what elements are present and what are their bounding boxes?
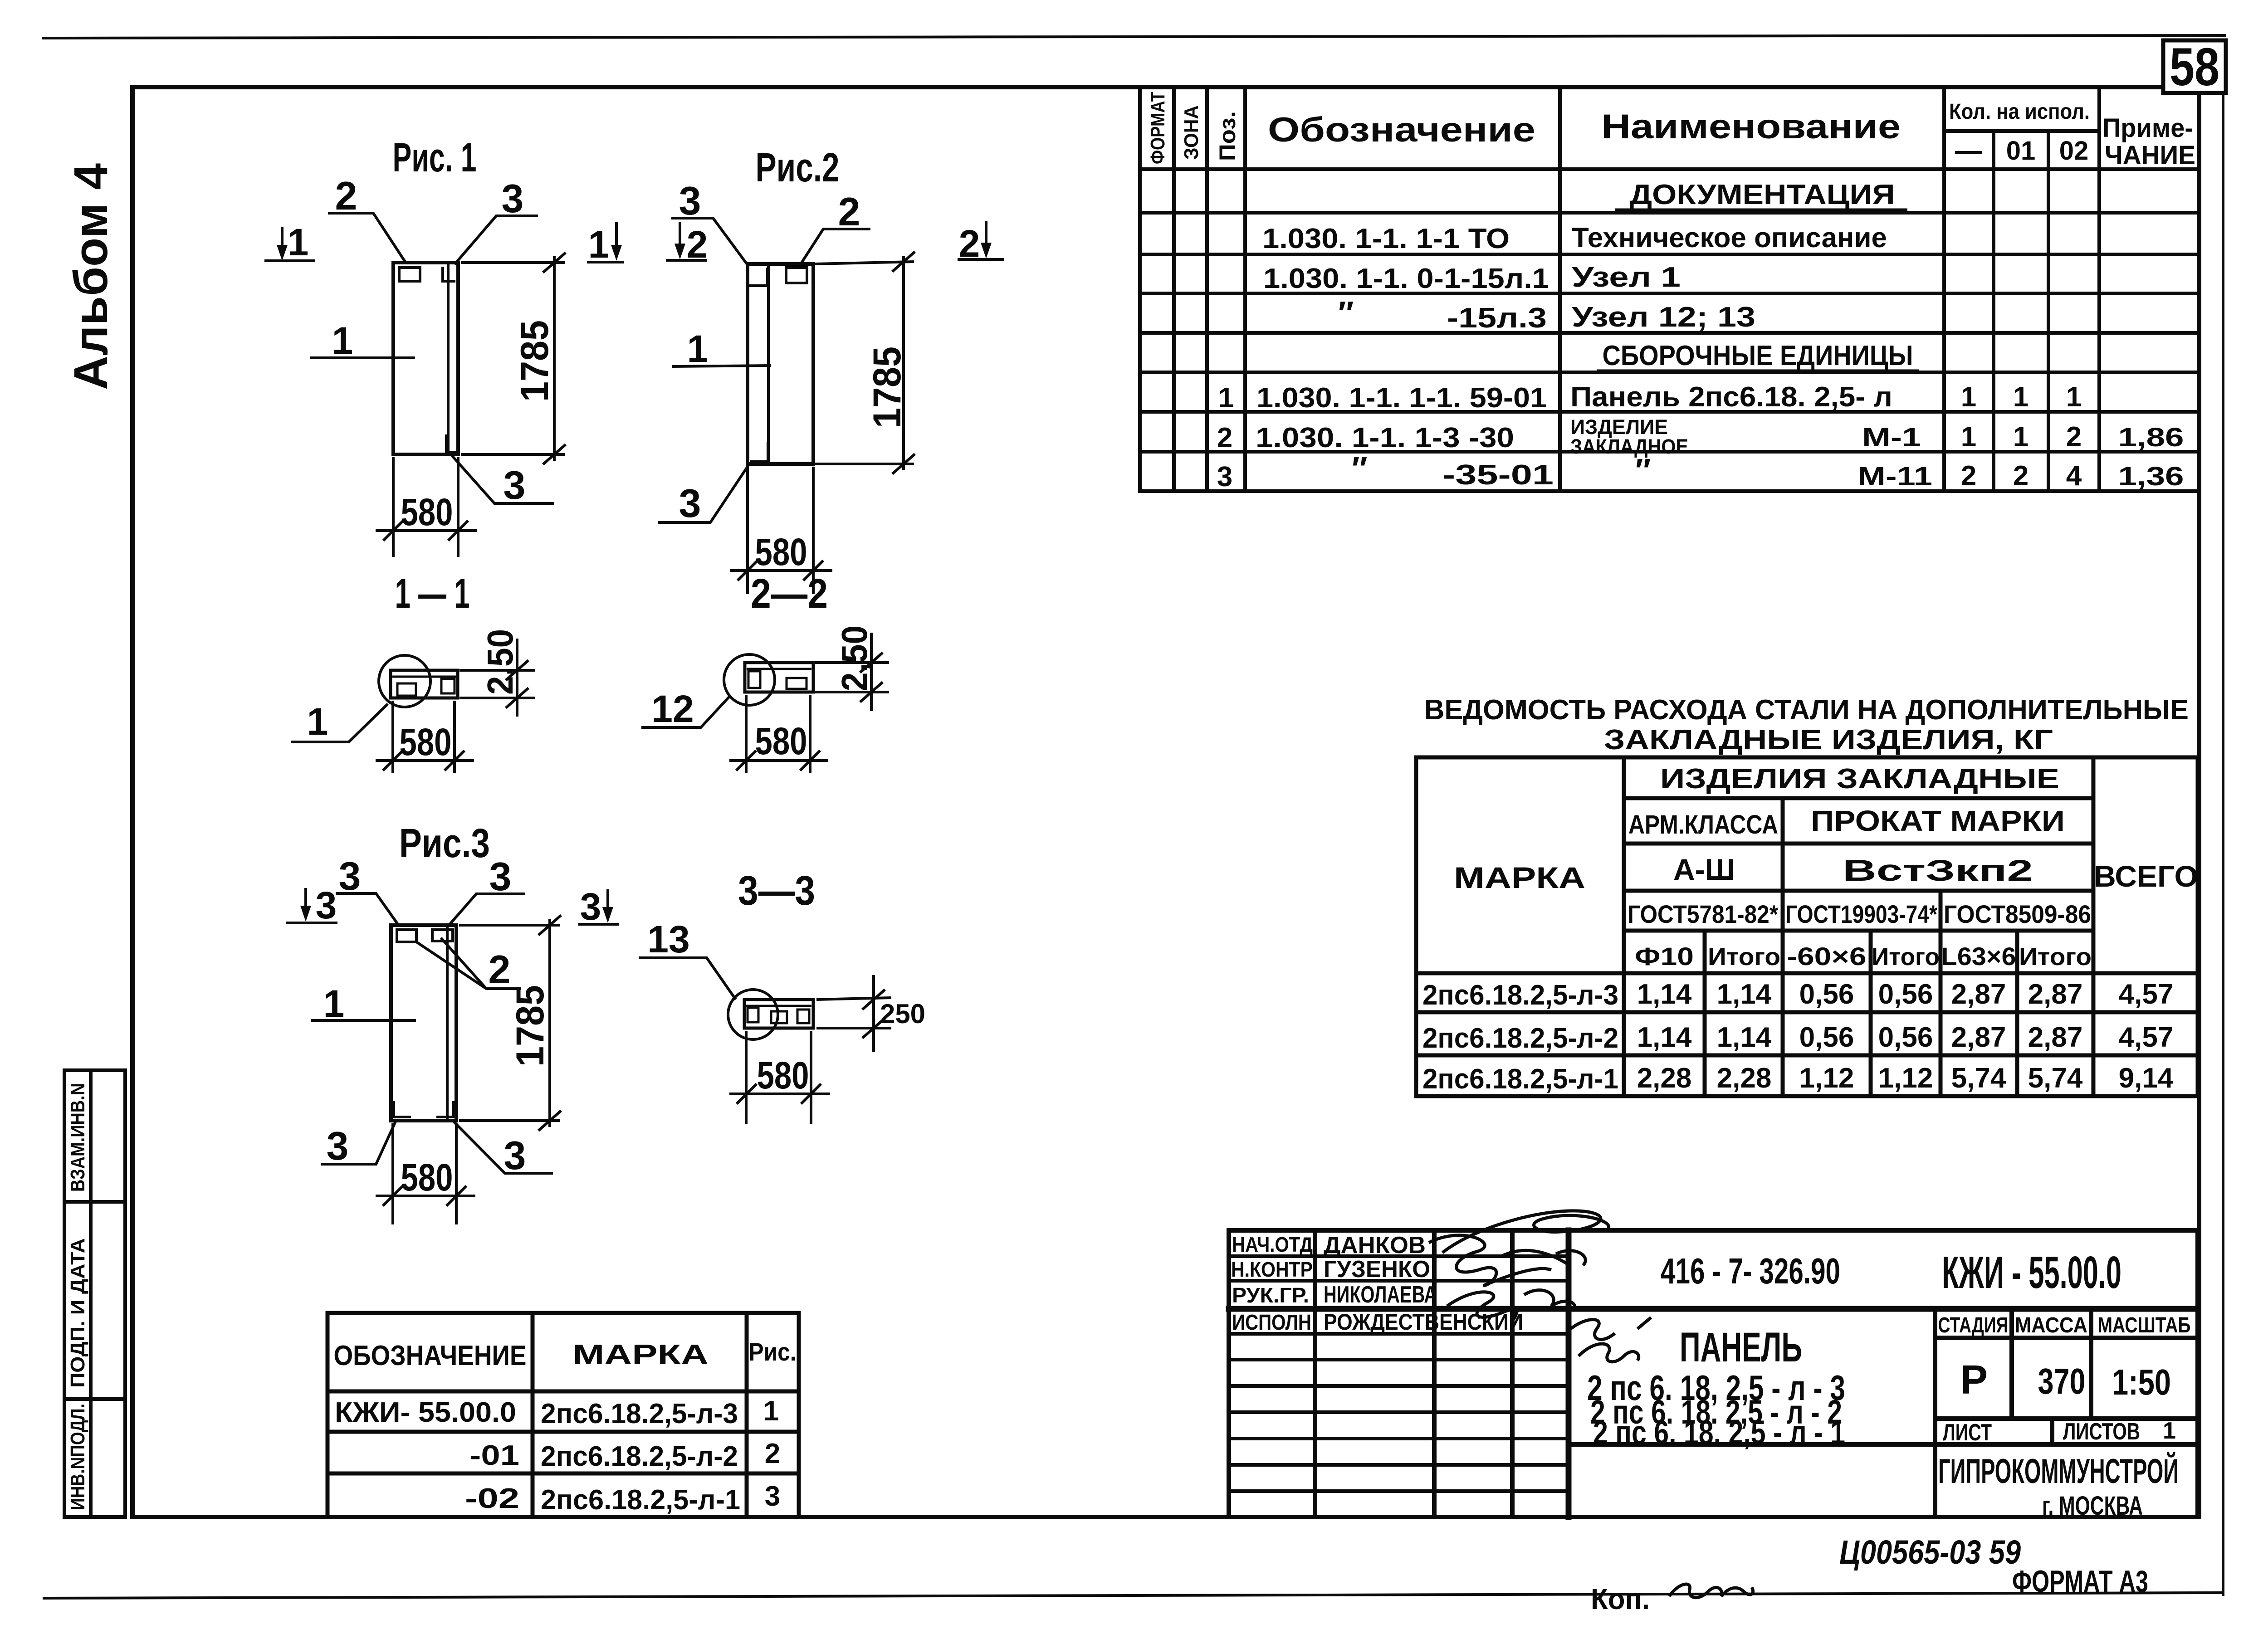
fig3 leader 3 top-left — [336, 893, 399, 926]
svg-text:г. МОСКВА: г. МОСКВА — [2042, 1491, 2143, 1521]
svg-text:1.030. 1-1. 1-1 ТО: 1.030. 1-1. 1-1 ТО — [1262, 223, 1510, 254]
svg-text:НИКОЛАЕВА: НИКОЛАЕВА — [1324, 1282, 1437, 1308]
svg-text:2,28: 2,28 — [1637, 1063, 1692, 1094]
svg-text:МАРКА: МАРКА — [572, 1339, 709, 1371]
fig2 leader 2 top — [800, 229, 870, 265]
svg-text:-01: -01 — [469, 1440, 519, 1471]
sec11 bar — [391, 670, 458, 698]
svg-text:1,14: 1,14 — [1637, 979, 1692, 1010]
svg-text:ДАНКОВ: ДАНКОВ — [1324, 1232, 1426, 1258]
title block grid — [1229, 1230, 2198, 1517]
svg-text:Ф10: Ф10 — [1635, 942, 1694, 971]
sec11 dim 580 — [376, 701, 474, 773]
svg-text:1: 1 — [687, 327, 709, 370]
svg-text:1,14: 1,14 — [1717, 979, 1772, 1010]
svg-text:2пс6.18.2,5-л-2: 2пс6.18.2,5-л-2 — [1422, 1023, 1618, 1054]
svg-text:МАССА: МАССА — [2015, 1313, 2087, 1337]
svg-text:3: 3 — [489, 854, 512, 899]
svg-text:ВЕДОМОСТЬ РАСХОДА СТАЛИ НА ДОП: ВЕДОМОСТЬ РАСХОДА СТАЛИ НА ДОПОЛНИТЕЛЬНЫ… — [1424, 694, 2189, 726]
svg-text:4,57: 4,57 — [2119, 1022, 2174, 1053]
svg-text:ЗАКЛАДНЫЕ ИЗДЕЛИЯ, КГ: ЗАКЛАДНЫЕ ИЗДЕЛИЯ, КГ — [1604, 724, 2053, 756]
fig3 embed mark top-left — [397, 930, 416, 942]
svg-text:2,87: 2,87 — [2028, 979, 2083, 1010]
svg-text:Рис.3: Рис.3 — [399, 821, 490, 866]
svg-text:1785: 1785 — [513, 320, 557, 402]
sec22 bar — [745, 663, 813, 692]
svg-text:1 — 1: 1 — 1 — [395, 571, 470, 617]
fig1 inner wall line — [447, 264, 450, 453]
fig1 leader 2 — [328, 213, 406, 263]
svg-text:2пс6.18.2,5-л-3: 2пс6.18.2,5-л-3 — [1422, 980, 1618, 1011]
sec22 dim 580 — [729, 695, 828, 773]
svg-text:L63×6: L63×6 — [1941, 942, 2016, 971]
sec33 dim 580 — [729, 1031, 830, 1124]
svg-text:ПОДП. И ДАТА: ПОДП. И ДАТА — [67, 1238, 89, 1388]
fig2 leader 3 top — [671, 218, 748, 265]
svg-text:580: 580 — [401, 1156, 453, 1199]
svg-text:1.030. 1-1. 1-1. 59-01: 1.030. 1-1. 1-1. 59-01 — [1256, 382, 1547, 414]
svg-text:1: 1 — [2013, 421, 2028, 453]
fig3 leader 3 bottom-left — [321, 1122, 396, 1164]
fig3 section mark 3 left — [286, 888, 337, 923]
svg-text:1: 1 — [763, 1395, 779, 1427]
svg-text:Приме-: Приме- — [2102, 113, 2193, 143]
svg-text:ВЗАМ.ИНВ.N: ВЗАМ.ИНВ.N — [67, 1083, 89, 1192]
svg-text:4,57: 4,57 — [2119, 979, 2174, 1010]
svg-text:1: 1 — [307, 700, 328, 743]
svg-text:РУК.ГР.: РУК.ГР. — [1232, 1283, 1309, 1307]
sheet number box — [2163, 40, 2226, 93]
svg-text:Итого: Итого — [2019, 943, 2092, 971]
svg-text:ФОРМАТ А3: ФОРМАТ А3 — [2012, 1564, 2148, 1599]
svg-text:2: 2 — [1217, 422, 1232, 454]
svg-text:ИЗДЕЛИЯ ЗАКЛАДНЫЕ: ИЗДЕЛИЯ ЗАКЛАДНЫЕ — [1660, 763, 2059, 795]
svg-text:1: 1 — [588, 223, 610, 266]
svg-text:″: ″ — [1635, 453, 1651, 489]
steel consumption table grid — [1416, 757, 2198, 1096]
svg-text:ВСЕГО: ВСЕГО — [2094, 859, 2198, 893]
svg-text:Обозначение: Обозначение — [1268, 111, 1535, 149]
sec33 leader 13 — [639, 958, 736, 1000]
svg-text:1: 1 — [323, 982, 345, 1025]
svg-text:1: 1 — [1961, 381, 1976, 413]
svg-text:1: 1 — [332, 319, 353, 362]
svg-text:1: 1 — [1218, 382, 1234, 414]
fig2 panel outline — [748, 264, 813, 464]
fig3 dim 580 — [376, 1123, 475, 1224]
fig2 dim 580 — [730, 467, 832, 594]
svg-text:1:50: 1:50 — [2112, 1362, 2171, 1402]
svg-text:3: 3 — [503, 463, 526, 507]
sec11 dim 2,50 — [459, 639, 535, 717]
fig3 embed mark top-right — [432, 930, 453, 941]
svg-text:Узел 1: Узел 1 — [1572, 262, 1681, 293]
svg-text:5,74: 5,74 — [1951, 1063, 2006, 1094]
svg-text:2: 2 — [1961, 460, 1976, 492]
fig3 section mark 3 right — [578, 889, 619, 924]
svg-text:ГУЗЕНКО: ГУЗЕНКО — [1324, 1256, 1430, 1283]
svg-text:58: 58 — [2170, 37, 2219, 97]
svg-text:1,12: 1,12 — [1799, 1063, 1854, 1094]
fig3 leader 3 bottom-right — [454, 1122, 553, 1173]
svg-text:Альбом 4: Альбом 4 — [64, 163, 117, 390]
svg-text:Рис.2: Рис.2 — [756, 145, 840, 190]
fig1 panel outline — [393, 263, 458, 454]
specification table (top right) — [1140, 87, 2198, 491]
sec22 detail circle — [724, 654, 775, 705]
svg-text:АРМ.КЛАССА: АРМ.КЛАССА — [1628, 810, 1778, 839]
svg-text:КЖИ- 55.00.0: КЖИ- 55.00.0 — [335, 1397, 516, 1428]
svg-text:3: 3 — [327, 1123, 349, 1168]
svg-text:М-11: М-11 — [1857, 462, 1932, 491]
svg-text:2,50: 2,50 — [834, 625, 875, 691]
svg-text:370: 370 — [2038, 1361, 2086, 1401]
svg-text:ОБОЗНАЧЕНИЕ: ОБОЗНАЧЕНИЕ — [334, 1340, 527, 1371]
fig1 embed mark bottom-right — [446, 434, 456, 453]
fig3 leader 1 — [311, 1019, 416, 1022]
svg-text:2,87: 2,87 — [2028, 1022, 2083, 1053]
svg-text:1,12: 1,12 — [1878, 1063, 1933, 1094]
svg-text:9,14: 9,14 — [2119, 1063, 2174, 1094]
svg-text:4: 4 — [2066, 460, 2082, 492]
svg-text:Рис.: Рис. — [749, 1337, 797, 1366]
svg-text:ИНВ.NПОДЛ.: ИНВ.NПОДЛ. — [67, 1404, 89, 1510]
svg-text:2пс6.18.2,5-л-1: 2пс6.18.2,5-л-1 — [541, 1484, 740, 1516]
svg-text:ГОСТ8509-86: ГОСТ8509-86 — [1944, 900, 2091, 928]
svg-text:2: 2 — [959, 222, 980, 265]
fig1 leader 3 top — [455, 216, 538, 264]
fig3 leader 2 with two lines — [415, 938, 521, 989]
fig2 embed mark top-right — [786, 268, 807, 283]
svg-text:Рис. 1: Рис. 1 — [393, 135, 477, 180]
svg-text:580: 580 — [755, 720, 807, 762]
svg-text:Техническое описание: Техническое описание — [1572, 222, 1887, 254]
page top edge — [43, 35, 2225, 38]
svg-text:ЧАНИЕ: ЧАНИЕ — [2105, 141, 2195, 170]
fig2 section mark 1 — [587, 222, 624, 262]
svg-text:Итого: Итого — [1708, 943, 1780, 971]
svg-text:2: 2 — [687, 223, 708, 266]
svg-text:ПРОКАТ МАРКИ: ПРОКАТ МАРКИ — [1811, 805, 2065, 837]
svg-text:2,50: 2,50 — [480, 629, 520, 695]
sec33 dim 250 — [816, 975, 891, 1052]
svg-text:ДОКУМЕНТАЦИЯ: ДОКУМЕНТАЦИЯ — [1630, 179, 1895, 210]
Коп. signature — [1669, 1584, 1753, 1598]
svg-text:5,74: 5,74 — [2028, 1063, 2083, 1094]
svg-text:-35-01: -35-01 — [1442, 459, 1554, 491]
svg-text:1: 1 — [288, 221, 309, 263]
fig3 dim 1785 — [459, 915, 561, 1131]
fig2 dim 1785 — [815, 252, 915, 474]
svg-text:416 - 7- 326.90: 416 - 7- 326.90 — [1661, 1251, 1840, 1291]
svg-text:МАСШТАБ: МАСШТАБ — [2098, 1313, 2191, 1337]
svg-text:Кол. на испол.: Кол. на испол. — [1949, 100, 2090, 124]
svg-text:″: ″ — [1352, 451, 1368, 487]
svg-text:3: 3 — [502, 176, 524, 221]
svg-text:580: 580 — [400, 721, 452, 763]
svg-text:1785: 1785 — [865, 346, 909, 428]
svg-text:12: 12 — [651, 688, 694, 730]
fig2 section mark 2 right — [958, 221, 1004, 259]
sec33 bar — [744, 1000, 813, 1028]
fig3 embed mark bottom-right — [436, 1101, 454, 1117]
svg-text:2: 2 — [335, 173, 357, 218]
svg-text:1: 1 — [2163, 1418, 2176, 1444]
svg-text:2: 2 — [2013, 460, 2028, 492]
svg-text:3: 3 — [339, 854, 361, 898]
svg-text:СТАДИЯ: СТАДИЯ — [1938, 1313, 2009, 1337]
sec33 detail circle — [728, 990, 778, 1039]
svg-text:580: 580 — [757, 1054, 809, 1097]
svg-text:Ц00565-03 59: Ц00565-03 59 — [1839, 1533, 2021, 1571]
svg-text:1: 1 — [2066, 381, 2082, 413]
svg-text:2,28: 2,28 — [1717, 1063, 1772, 1094]
svg-text:ЗАКЛАДНОЕ: ЗАКЛАДНОЕ — [1570, 435, 1688, 458]
svg-text:3: 3 — [765, 1481, 780, 1512]
svg-text:М-1: М-1 — [1862, 423, 1921, 452]
svg-text:НАЧ.ОТД: НАЧ.ОТД — [1232, 1233, 1313, 1256]
fig3 leader 3 top-right — [448, 894, 525, 926]
svg-text:3: 3 — [1217, 461, 1232, 493]
svg-text:1,14: 1,14 — [1717, 1022, 1772, 1053]
svg-text:1: 1 — [2013, 381, 2028, 413]
svg-text:2пс6.18.2,5-л-2: 2пс6.18.2,5-л-2 — [541, 1441, 738, 1472]
fig3 embed mark bottom-left — [394, 1101, 411, 1117]
svg-text:2,87: 2,87 — [1951, 1022, 2006, 1053]
svg-text:Р: Р — [1960, 1357, 1988, 1403]
svg-text:3: 3 — [504, 1133, 526, 1178]
svg-text:ПАНЕЛЬ: ПАНЕЛЬ — [1680, 1324, 1802, 1371]
svg-text:Коп.: Коп. — [1591, 1583, 1650, 1615]
fig3 panel outline — [391, 925, 456, 1121]
svg-text:ЗОНА: ЗОНА — [1180, 105, 1202, 160]
svg-text:580: 580 — [755, 531, 807, 573]
svg-text:Поз.: Поз. — [1215, 111, 1240, 161]
svg-text:Итого: Итого — [1872, 943, 1940, 971]
svg-text:3: 3 — [316, 884, 337, 927]
svg-text:-02: -02 — [465, 1483, 519, 1514]
svg-text:ЛИСТ: ЛИСТ — [1943, 1419, 1992, 1446]
svg-text:″: ″ — [1338, 295, 1354, 332]
svg-text:2 пс 6. 18. 2,5 - л - 1: 2 пс 6. 18. 2,5 - л - 1 — [1593, 1414, 1845, 1451]
svg-text:ВстЗкп2: ВстЗкп2 — [1843, 854, 2033, 887]
svg-text:3: 3 — [580, 885, 601, 928]
svg-text:КЖИ - 55.00.0: КЖИ - 55.00.0 — [1942, 1247, 2121, 1298]
svg-text:2: 2 — [2066, 421, 2082, 453]
svg-text:ГИПРОКОММУНСТРОЙ: ГИПРОКОММУНСТРОЙ — [1938, 1452, 2179, 1491]
bottom-left reference table grid — [327, 1313, 799, 1517]
sec22 leader 12 — [641, 697, 729, 727]
svg-text:СБОРОЧНЫЕ ЕДИНИЦЫ: СБОРОЧНЫЕ ЕДИНИЦЫ — [1603, 340, 1913, 371]
svg-text:2—2: 2—2 — [751, 571, 828, 617]
page right edge — [2222, 92, 2224, 1595]
svg-text:2: 2 — [489, 947, 511, 992]
svg-text:-15л.3: -15л.3 — [1447, 302, 1547, 334]
svg-text:2пс6.18.2,5-л-1: 2пс6.18.2,5-л-1 — [1422, 1063, 1618, 1095]
fig3 inner wall line — [446, 927, 449, 1119]
svg-text:ГОСТ5781-82*: ГОСТ5781-82* — [1628, 900, 1778, 928]
fig1 section mark 1 left — [264, 227, 315, 261]
fig2 embed mark top-left — [749, 268, 767, 286]
fig1 embed mark top-right — [443, 267, 455, 281]
svg-text:0,56: 0,56 — [1878, 1022, 1933, 1053]
svg-text:ГОСТ19903-74*: ГОСТ19903-74* — [1785, 900, 1937, 928]
svg-text:2,87: 2,87 — [1951, 979, 2006, 1010]
sec22 dim 2,50 — [815, 633, 889, 711]
svg-text:1,14: 1,14 — [1637, 1022, 1692, 1053]
svg-text:02: 02 — [2059, 136, 2089, 166]
svg-text:2пс6.18.2,5-л-3: 2пс6.18.2,5-л-3 — [541, 1398, 738, 1429]
svg-text:-60×6: -60×6 — [1787, 942, 1867, 971]
svg-text:ЛИСТОВ: ЛИСТОВ — [2063, 1419, 2140, 1445]
svg-text:0,56: 0,56 — [1878, 979, 1933, 1010]
svg-text:—: — — [1955, 135, 1982, 166]
svg-text:580: 580 — [401, 491, 453, 533]
svg-text:1.030. 1-1. 1-3 -30: 1.030. 1-1. 1-3 -30 — [1256, 422, 1514, 454]
left margin strip — [64, 1070, 125, 1517]
page bottom edge — [44, 1593, 2222, 1598]
svg-text:0,56: 0,56 — [1799, 1022, 1854, 1053]
fig1 leader 3 bottom — [451, 454, 554, 503]
fig2 section mark 2 — [666, 222, 707, 260]
fig2 leader 3 bottom — [658, 464, 749, 522]
svg-text:ИСПОЛН: ИСПОЛН — [1232, 1311, 1311, 1335]
svg-text:А-Ш: А-Ш — [1673, 853, 1735, 886]
svg-text:1,86: 1,86 — [2118, 423, 2184, 452]
svg-text:2: 2 — [765, 1438, 780, 1469]
fig2 embed mark bottom-left — [750, 442, 768, 462]
svg-text:13: 13 — [647, 918, 689, 961]
svg-text:РОЖДЕСТВЕНСКИЙ: РОЖДЕСТВЕНСКИЙ — [1324, 1309, 1523, 1335]
fig1 embed mark top-left — [399, 268, 420, 281]
svg-text:ФОРМАТ: ФОРМАТ — [1147, 92, 1169, 164]
fig1 leader 1 — [310, 356, 415, 359]
svg-text:1: 1 — [1961, 421, 1976, 453]
svg-text:Наименование: Наименование — [1601, 107, 1901, 146]
fig2 leader 1 — [672, 366, 771, 366]
fig2 inner wall line — [767, 266, 770, 462]
fig1 dim 580 — [376, 457, 477, 557]
svg-text:Узел 12; 13: Узел 12; 13 — [1572, 302, 1755, 333]
svg-text:Н.КОНТР: Н.КОНТР — [1231, 1258, 1313, 1281]
svg-text:0,56: 0,56 — [1799, 979, 1854, 1010]
svg-text:1.030. 1-1. 0-1-15л.1: 1.030. 1-1. 0-1-15л.1 — [1263, 263, 1549, 294]
svg-text:Панель 2пс6.18. 2,5- л: Панель 2пс6.18. 2,5- л — [1570, 381, 1892, 413]
sec11 leader 1 — [291, 704, 388, 742]
sec11 detail circle — [379, 655, 430, 707]
svg-text:3—3: 3—3 — [738, 868, 815, 914]
svg-text:3: 3 — [679, 178, 701, 223]
svg-text:2: 2 — [838, 189, 860, 234]
svg-text:3: 3 — [679, 481, 701, 526]
svg-text:МАРКА: МАРКА — [1454, 861, 1585, 894]
svg-text:01: 01 — [2006, 136, 2036, 166]
drawing frame — [132, 87, 2199, 1517]
fig1 dim 1785 — [461, 253, 566, 464]
svg-text:1,36: 1,36 — [2118, 462, 2184, 491]
svg-text:250: 250 — [880, 999, 925, 1029]
signature scribbles — [1429, 1211, 1651, 1362]
svg-text:1785: 1785 — [508, 985, 552, 1067]
